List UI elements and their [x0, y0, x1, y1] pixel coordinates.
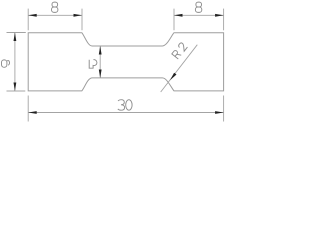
- dimension 8 (left grip) extension lines: [28, 9, 82, 31]
- dimension 5 (narrow width) dimension line: [99, 46, 101, 78]
- radius R2 value label (rotated): [172, 42, 188, 59]
- dimension 8 (right grip) arrowheads: [174, 14, 224, 17]
- dimension 5 (narrow width) arrowheads: [99, 46, 102, 78]
- dimension 9 (overall height) extension lines: [7, 33, 26, 92]
- radius R2 leader arrowhead: [170, 73, 177, 81]
- dimension 9 (overall height) dimension line: [14, 33, 16, 92]
- dimension 8 (left grip) arrowheads: [28, 14, 82, 17]
- dimension 9 (overall height) value label "9" (rotated): [2, 60, 10, 67]
- dimension 9 (overall height) arrowheads: [14, 33, 17, 92]
- dimension 5 (narrow width) value label "5" (rotated): [89, 60, 97, 69]
- dimension 8 (right grip) dimension line: [174, 14, 224, 16]
- dimension 30 (overall length) dimension line: [28, 112, 223, 114]
- dimension 8 (right grip) extension lines: [174, 9, 224, 31]
- radius R2 leader line: [161, 45, 198, 92]
- dimension 8 (right grip) value label "8": [195, 2, 201, 12]
- dimension 8 (left grip) value label "8": [52, 2, 58, 12]
- dimension 30 (overall length) arrowheads: [28, 111, 223, 114]
- dimension 30 (overall length) extension lines: [28, 96, 223, 122]
- dimension 30 (overall length) value label "30": [118, 100, 132, 111]
- specimen outline (dog-bone profile): [28, 33, 223, 91]
- dimension 8 (left grip) dimension line: [28, 14, 82, 16]
